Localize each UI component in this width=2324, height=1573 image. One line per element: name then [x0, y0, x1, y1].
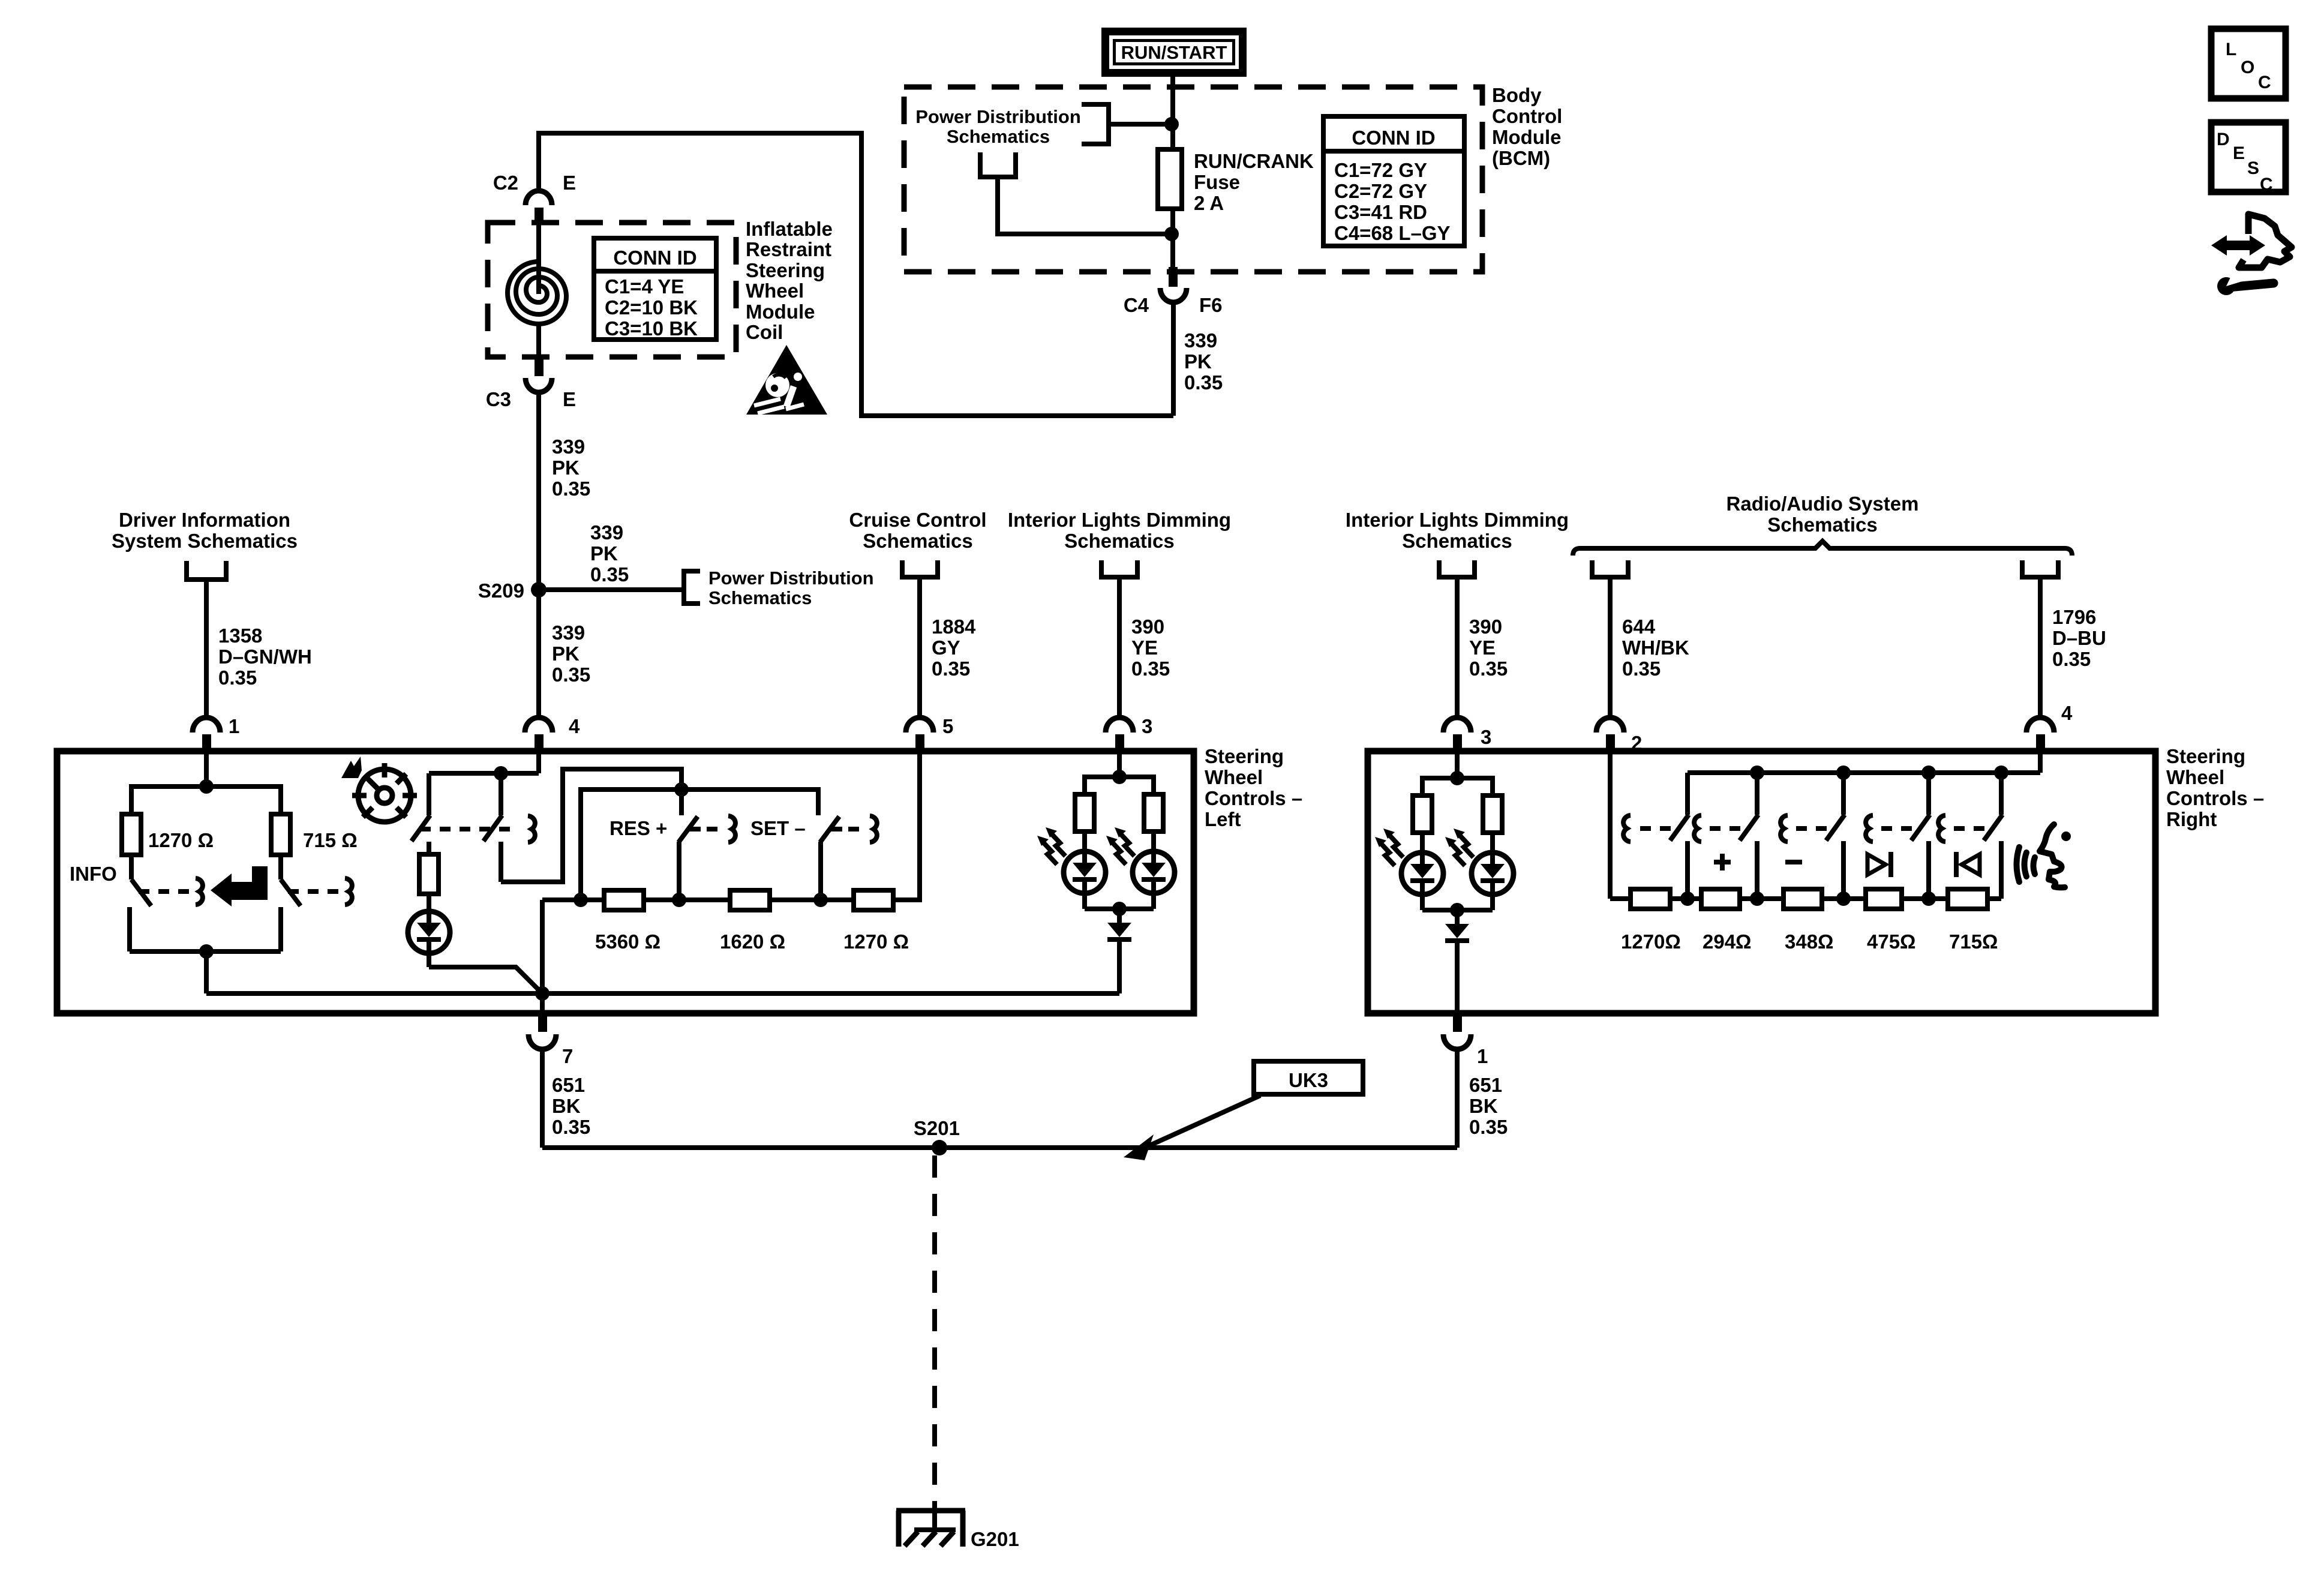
off-page bracket (interior lights dimming left): [1101, 560, 1137, 577]
node dimming cathode right box: [1450, 903, 1464, 917]
svg-text:Radio/Audio System: Radio/Audio System: [1727, 493, 1919, 515]
resistor dimming right box right: [1483, 795, 1502, 833]
switch RES+: [678, 816, 735, 900]
node row tap SET: [813, 893, 828, 907]
connector C3 arc: [526, 378, 552, 392]
svg-text:Wheel: Wheel: [1205, 766, 1263, 788]
connector pin 1 right box stub: [1453, 1013, 1462, 1032]
svg-text:1: 1: [1477, 1045, 1488, 1067]
wire resistors to LEDs: [1085, 831, 1154, 852]
svg-text:D–GN/WH: D–GN/WH: [218, 646, 312, 668]
node dimming cathode: [1112, 902, 1127, 916]
splice S201: [932, 1140, 947, 1155]
svg-text:SET –: SET –: [750, 817, 806, 839]
svg-text:339: 339: [590, 521, 623, 544]
connector pin 2 (right box): [1596, 718, 1642, 754]
svg-text:PK: PK: [552, 643, 580, 665]
light arrows (dimming left LED): [1037, 827, 1065, 864]
node row tap 5360: [574, 893, 588, 907]
svg-text:Schematics: Schematics: [1767, 514, 1877, 536]
svg-text:D–BU: D–BU: [2052, 627, 2106, 649]
svg-text:Cruise Control: Cruise Control: [849, 509, 986, 531]
svg-text:715Ω: 715Ω: [1949, 930, 1998, 953]
icon minus: [1785, 860, 1802, 864]
wire pin 3 dimming entry (right box): [1455, 752, 1460, 778]
off-page bracket (radio right): [2022, 560, 2058, 577]
connector pin 1 (left box): [193, 715, 239, 752]
resistor 1620 ohm: [730, 890, 770, 910]
svg-text:0.35: 0.35: [1184, 371, 1223, 394]
brace radio/audio span: [1573, 541, 2072, 556]
wire internal ground bus: [206, 991, 1119, 996]
svg-text:INFO: INFO: [70, 863, 117, 885]
svg-text:Interior Lights Dimming: Interior Lights Dimming: [1346, 509, 1569, 531]
svg-text:0.35: 0.35: [552, 1116, 590, 1138]
detent curl cruise: [528, 816, 535, 842]
wire resistor ladder row: [542, 897, 919, 902]
gauge icon: [352, 763, 417, 822]
svg-text:YE: YE: [1131, 637, 1158, 659]
label Body Control Module (BCM): [1492, 84, 1562, 169]
resistor 1270 ohm (cruise): [854, 890, 893, 910]
svg-text:5: 5: [942, 715, 953, 737]
wire C4 down: [1171, 302, 1176, 416]
label Cruise Control Schematics: [849, 509, 986, 552]
node INFO bottom: [199, 944, 214, 959]
wire S209 branch right: [539, 587, 684, 592]
wire radio left to pin 2: [1608, 577, 1613, 719]
label 651 BK 0.35 (left): [552, 1074, 590, 1138]
resistor 5360 ohm: [604, 890, 644, 910]
rail nodes: [1750, 766, 2008, 780]
svg-text:0.35: 0.35: [932, 658, 970, 680]
off-page bracket (interior lights dimming right): [1439, 560, 1475, 577]
wire C2 from top: [536, 131, 541, 192]
connector C4/F6 arc: [1160, 288, 1187, 302]
box Steering Wheel Controls - Left: [57, 751, 1194, 1013]
svg-text:C4=68 L–GY: C4=68 L–GY: [1334, 222, 1451, 244]
LED cruise indicator: [408, 911, 450, 967]
resistor 348 ohm: [1783, 889, 1822, 909]
svg-text:S201: S201: [914, 1117, 960, 1139]
svg-text:PK: PK: [552, 457, 580, 479]
svg-text:E: E: [2233, 143, 2245, 163]
svg-text:0.35: 0.35: [1622, 658, 1661, 680]
switch cruise on/off 1: [412, 815, 430, 854]
svg-text:C: C: [2260, 175, 2273, 194]
svg-text:Schematics: Schematics: [708, 587, 812, 608]
wire pin 2 down to row: [1608, 752, 1613, 899]
wire bracket to node: [1109, 122, 1172, 127]
resistor dimming right box left: [1413, 795, 1432, 833]
dashed box Body Control Module: [904, 87, 1482, 272]
fuse RUN/CRANK 2A: [1158, 149, 1182, 209]
switch INFO right: [281, 878, 352, 951]
svg-text:RUN/START: RUN/START: [1121, 42, 1227, 63]
svg-text:1884: 1884: [932, 616, 976, 638]
svg-text:C3: C3: [486, 388, 511, 410]
label 1796 D-BU 0.35: [2052, 606, 2106, 670]
svg-text:0.35: 0.35: [552, 664, 590, 686]
svg-text:4: 4: [569, 715, 580, 737]
svg-text:C4: C4: [1124, 294, 1149, 316]
wire dimming to pin 3 right: [1455, 577, 1460, 719]
wire pin 5 down to row: [893, 752, 920, 900]
connector pin 3 (left box): [1106, 715, 1152, 752]
connector pin 5 (left box): [906, 715, 953, 752]
connector pin 7 arc: [529, 1034, 556, 1049]
wire pin 1 right to S201: [1455, 1049, 1460, 1148]
svg-text:3: 3: [1142, 715, 1152, 737]
label Power Distribution Schematics (S209): [708, 568, 874, 608]
svg-text:Coil: Coil: [746, 321, 783, 343]
label 651 BK 0.35 (right): [1469, 1074, 1508, 1138]
wire radio right to pin 4: [2038, 577, 2043, 719]
connector pin 7 stub: [538, 1013, 547, 1032]
svg-text:390: 390: [1131, 616, 1164, 638]
switch S4 475 seek-right (right box): [1866, 773, 1930, 899]
LED dimming right box left: [1401, 852, 1443, 910]
wire common to SET switch: [681, 789, 818, 815]
svg-text:BK: BK: [1469, 1095, 1498, 1117]
switch S1 1270 (right box): [1623, 773, 1689, 899]
label 1358 D-GN/WH 0.35: [218, 625, 312, 689]
svg-text:RUN/CRANK: RUN/CRANK: [1194, 150, 1314, 172]
svg-text:7: 7: [562, 1045, 573, 1067]
callout box UK3: [1254, 1061, 1363, 1094]
off-page bracket (driver information): [187, 561, 226, 580]
wire dimming split right: [1422, 778, 1493, 795]
svg-text:PK: PK: [590, 542, 618, 565]
svg-text:CONN ID: CONN ID: [613, 247, 696, 269]
svg-text:BK: BK: [552, 1095, 581, 1117]
airbag warning triangle: [746, 345, 827, 415]
connector pin 4 (right box): [2026, 702, 2073, 752]
power tag RUN/START: [1101, 28, 1247, 77]
off-page bracket (radio left): [1592, 560, 1628, 577]
off-page bracket (cruise control): [902, 560, 938, 577]
svg-text:C2=10 BK: C2=10 BK: [605, 296, 698, 319]
node INFO top split: [199, 779, 214, 794]
svg-text:Body: Body: [1492, 84, 1542, 106]
switch SET-: [820, 816, 877, 900]
wire INFO bottom join: [130, 949, 281, 954]
wire LED cathodes join: [1085, 906, 1154, 911]
svg-text:0.35: 0.35: [1131, 658, 1170, 680]
svg-text:Schematics: Schematics: [1064, 530, 1174, 552]
icon plus: [1714, 854, 1731, 870]
wire RUN/START to fuse: [1170, 77, 1175, 150]
connector C2 pin stub: [535, 208, 544, 224]
resistor dimming right: [1144, 794, 1163, 831]
connector pin 3 (right box): [1443, 718, 1491, 752]
node cruise switch 2 feed: [494, 766, 508, 781]
svg-text:Schematics: Schematics: [863, 530, 972, 552]
wire common to RES switch: [679, 789, 684, 815]
resistor dimming left: [1075, 794, 1094, 831]
LED dimming right box right: [1472, 852, 1514, 910]
svg-text:Wheel: Wheel: [2166, 766, 2224, 788]
svg-text:Inflatable: Inflatable: [746, 218, 833, 240]
svg-text:Schematics: Schematics: [1402, 530, 1512, 552]
label 339 PK 0.35 (pin 4 wire): [552, 622, 590, 686]
dashed box Inflatable Restraint Steering Wheel Module Coil: [488, 223, 736, 357]
LED dimming left: [1064, 851, 1106, 909]
svg-text:C1=4 YE: C1=4 YE: [605, 275, 684, 298]
svg-text:651: 651: [552, 1074, 585, 1096]
node bus pin7: [535, 986, 550, 1001]
label 1884 GY 0.35: [932, 616, 976, 680]
off-page bracket (power distribution right): [684, 571, 700, 604]
svg-text:E: E: [563, 388, 576, 410]
label Radio/Audio System Schematics: [1727, 493, 1919, 536]
label Driver Information System Schematics: [112, 509, 298, 552]
svg-text:Left: Left: [1205, 808, 1241, 830]
row nodes right box: [1680, 891, 1936, 906]
resistor 1270 ohm right box: [1631, 889, 1670, 909]
svg-text:Right: Right: [2166, 808, 2217, 830]
icon fender outline: [2239, 214, 2292, 268]
gauge icon flag arrow: [341, 757, 362, 778]
svg-text:C3=41 RD: C3=41 RD: [1334, 201, 1427, 223]
arrow UK3 to bus: [1124, 1095, 1260, 1160]
svg-text:Power Distribution: Power Distribution: [708, 568, 874, 589]
wire to cruise switch 2: [499, 773, 503, 815]
wire common to row tap: [581, 789, 681, 900]
svg-text:S: S: [2247, 158, 2259, 178]
dashed wire S201 to ground: [932, 1155, 937, 1511]
icon LOC box: [2211, 29, 2286, 98]
svg-text:Controls –: Controls –: [2166, 787, 2264, 809]
box Steering Wheel Controls - Right: [1368, 751, 2155, 1013]
svg-text:1358: 1358: [218, 625, 262, 647]
svg-text:Steering: Steering: [1205, 745, 1284, 767]
icon wrench: [2217, 271, 2274, 295]
svg-text:348Ω: 348Ω: [1785, 930, 1834, 953]
connector C2 arc: [526, 191, 552, 205]
wire resistor to INFO switch right: [278, 855, 283, 879]
svg-text:651: 651: [1469, 1074, 1502, 1096]
svg-text:Controls –: Controls –: [1205, 787, 1302, 809]
diode (dimming left box): [1107, 909, 1131, 993]
wire C3 to S209: [536, 392, 541, 590]
wire pin 1 into INFO branch: [204, 752, 209, 786]
svg-text:UK3: UK3: [1289, 1069, 1328, 1091]
svg-text:339: 339: [552, 436, 585, 458]
svg-text:D: D: [2217, 130, 2230, 149]
node row tap RES: [672, 893, 686, 907]
label Steering Wheel Controls - Right: [2166, 745, 2264, 830]
svg-text:4: 4: [2061, 702, 2073, 724]
svg-text:Fuse: Fuse: [1194, 171, 1240, 193]
svg-text:5360 Ω: 5360 Ω: [595, 930, 660, 953]
svg-text:0.35: 0.35: [1469, 658, 1508, 680]
icon component locator arrow: [2211, 235, 2265, 256]
label RUN/CRANK Fuse 2 A: [1194, 150, 1314, 214]
svg-text:644: 644: [1622, 616, 1656, 638]
label 644 WH/BK 0.35: [1622, 616, 1689, 680]
label Interior Lights Dimming Schematics (left): [1008, 509, 1231, 552]
svg-text:1270 Ω: 1270 Ω: [843, 930, 909, 953]
off-page bracket (BCM power distribution): [1082, 104, 1109, 144]
icon seek previous: [1956, 852, 1980, 877]
switch S2 294 + (right box): [1694, 773, 1758, 899]
connector C3 pin stub: [535, 357, 544, 376]
label 339 PK 0.35 (C4 circuit): [1184, 329, 1223, 394]
wire LED to pin7 drop: [429, 967, 541, 992]
svg-text:Wheel: Wheel: [746, 280, 804, 302]
wire row left end to pin 7: [540, 900, 545, 1013]
svg-text:WH/BK: WH/BK: [1622, 637, 1689, 659]
svg-text:F6: F6: [1199, 294, 1223, 316]
fuse reference symbol: [980, 152, 1016, 177]
svg-text:0.35: 0.35: [552, 478, 590, 500]
node res/set common: [674, 782, 689, 797]
svg-text:C3=10 BK: C3=10 BK: [605, 317, 698, 340]
resistor 1270 ohm (INFO left): [122, 814, 141, 855]
resistor 475 ohm: [1866, 889, 1902, 909]
svg-text:0.35: 0.35: [1469, 1116, 1508, 1138]
switch cruise on/off 2: [484, 815, 502, 882]
wire resistor to LED: [427, 894, 431, 912]
svg-text:(BCM): (BCM): [1492, 147, 1550, 169]
icon DESC box: [2211, 122, 2286, 194]
wire cruise sw2 common loop: [501, 769, 681, 882]
wire power loop to coil top: [539, 133, 1173, 416]
switch S3 348 - (right box): [1780, 773, 1845, 899]
wire INFO bottom to bus: [204, 951, 209, 993]
node junction at fuse top: [1164, 117, 1179, 131]
label Steering Wheel Controls - Left: [1205, 745, 1302, 830]
wire pin 4 to rail: [2038, 752, 2043, 773]
icon seek next: [1867, 852, 1891, 877]
wire LED cathodes join right box: [1422, 908, 1493, 912]
svg-text:294Ω: 294Ω: [1703, 930, 1752, 953]
svg-text:C: C: [2258, 73, 2271, 92]
wire switch rail right box: [1688, 770, 2040, 775]
wire pin4 rail to cruise switches: [429, 771, 539, 776]
svg-text:Schematics: Schematics: [947, 126, 1050, 147]
connector pin 1 right box arc: [1443, 1034, 1471, 1049]
connector pin 4 (left box): [525, 715, 580, 752]
svg-text:Module: Module: [1492, 126, 1561, 148]
svg-text:339: 339: [1184, 329, 1217, 352]
wire pin 7 to S201: [540, 1049, 545, 1148]
svg-text:339: 339: [552, 622, 585, 644]
svg-text:O: O: [2241, 58, 2254, 77]
resistor 715 ohm (INFO right): [271, 814, 290, 855]
svg-text:YE: YE: [1469, 637, 1496, 659]
resistor (cruise indicator): [419, 854, 439, 894]
svg-text:2 A: 2 A: [1194, 192, 1224, 214]
svg-text:0.35: 0.35: [590, 563, 629, 586]
label Inflatable Restraint Steering Wheel Module Coil: [746, 218, 833, 343]
clockspring coil spiral: [508, 223, 566, 357]
svg-text:1270Ω: 1270Ω: [1621, 930, 1681, 953]
light arrows (right box left LED): [1375, 828, 1403, 866]
node dimming split right: [1450, 771, 1464, 785]
wire cruise control to pin 5: [917, 577, 922, 719]
svg-text:System Schematics: System Schematics: [112, 530, 298, 552]
svg-text:475Ω: 475Ω: [1867, 930, 1916, 953]
wire dimming split: [1085, 777, 1154, 794]
wire S209 down to pin 4: [536, 590, 541, 719]
wire to cruise switch 1: [427, 773, 431, 815]
svg-text:Power Distribution: Power Distribution: [915, 106, 1081, 127]
svg-text:CONN ID: CONN ID: [1352, 127, 1435, 149]
svg-text:0.35: 0.35: [2052, 648, 2091, 670]
svg-text:C1=72 GY: C1=72 GY: [1334, 159, 1427, 181]
return arrow icon: [211, 866, 268, 906]
node dimming split: [1112, 770, 1127, 784]
svg-text:Steering: Steering: [2166, 745, 2245, 767]
label Interior Lights Dimming Schematics (right): [1346, 509, 1569, 552]
svg-text:Interior Lights Dimming: Interior Lights Dimming: [1008, 509, 1231, 531]
linkage dashes cruise switches: [420, 827, 515, 831]
svg-text:Driver Information: Driver Information: [119, 509, 290, 531]
wire through fuse: [1170, 124, 1175, 267]
light arrows (dimming right LED): [1106, 827, 1134, 864]
svg-text:G201: G201: [971, 1528, 1019, 1550]
label 339 PK 0.35 (above S209): [552, 436, 590, 500]
LED dimming right: [1133, 851, 1175, 909]
wire dimming to pin 3 left: [1117, 577, 1122, 719]
switch S5 715 seek-left (right box): [1938, 773, 2002, 899]
resistor 715 ohm right box: [1948, 889, 1987, 909]
wire resistor to INFO switch left: [129, 855, 134, 879]
table CONN ID (coil): [594, 238, 716, 340]
svg-text:Restraint: Restraint: [746, 238, 831, 260]
wire S201 ground bus: [542, 1145, 1457, 1150]
svg-text:GY: GY: [932, 637, 960, 659]
splice S209: [531, 582, 547, 598]
diode (dimming right box): [1445, 910, 1469, 1013]
connector C4/F6 pin stub: [1169, 267, 1178, 287]
wires resistors to LEDs right box: [1422, 833, 1493, 854]
label 390 YE 0.35 (right): [1469, 616, 1508, 680]
svg-text:390: 390: [1469, 616, 1502, 638]
svg-text:1620 Ω: 1620 Ω: [720, 930, 785, 953]
light arrows (right box right LED): [1445, 828, 1473, 866]
label 339 PK 0.35 (S209 branch): [590, 521, 629, 586]
svg-text:Steering: Steering: [746, 259, 825, 281]
svg-text:Control: Control: [1492, 105, 1562, 127]
svg-text:3: 3: [1481, 726, 1491, 748]
label 390 YE 0.35 (left): [1131, 616, 1170, 680]
table CONN ID (BCM): [1323, 116, 1464, 246]
wire driver info to pin 1: [204, 580, 209, 719]
svg-text:1270 Ω: 1270 Ω: [148, 829, 214, 851]
svg-text:E: E: [563, 172, 576, 194]
svg-text:C2=72 GY: C2=72 GY: [1334, 180, 1427, 202]
svg-text:L: L: [2226, 40, 2236, 59]
wire pin 3 dimming entry: [1117, 752, 1122, 777]
wire INFO split: [131, 786, 281, 814]
svg-text:1: 1: [229, 715, 239, 737]
switch INFO left: [130, 878, 203, 951]
svg-text:PK: PK: [1184, 350, 1212, 373]
wire fuse ref to node: [998, 177, 1172, 234]
wire resistor ladder row right box: [1610, 896, 2001, 901]
svg-text:715 Ω: 715 Ω: [303, 829, 358, 851]
wire pin 4 entry: [536, 752, 541, 773]
svg-text:S209: S209: [478, 580, 524, 602]
svg-text:0.35: 0.35: [218, 667, 257, 689]
svg-text:RES +: RES +: [609, 817, 667, 839]
node junction at fuse bottom: [1164, 227, 1179, 241]
svg-text:C2: C2: [493, 172, 518, 194]
svg-text:Module: Module: [746, 301, 815, 323]
